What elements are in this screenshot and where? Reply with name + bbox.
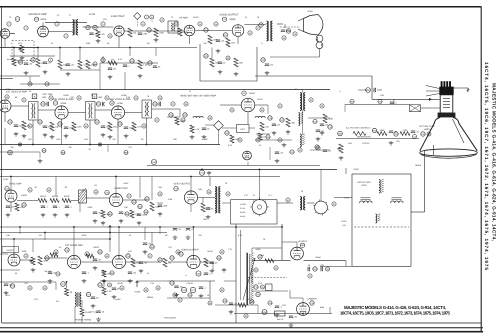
svg-text:12AU7: 12AU7: [249, 92, 256, 95]
svg-text:2-YEL: 2-YEL: [240, 207, 245, 210]
capacitor C17: [218, 62, 226, 65]
svg-text:4-BLK: 4-BLK: [240, 215, 246, 218]
transformer T9 horiz blocking: [300, 197, 305, 211]
svg-text:1M: 1M: [147, 42, 150, 45]
wire to yoke box: [345, 168, 347, 174]
resistor R94: [350, 99, 355, 103]
wire feed to audio row: [109, 239, 111, 252]
wire: [0, 253, 8, 255]
wire speaker field coil: [319, 49, 321, 57]
capacitor C45: [199, 170, 204, 175]
wire: [269, 147, 271, 160]
wire det to V9: [220, 104, 241, 106]
capacitor C13: [148, 61, 153, 65]
resistor R61 brightness: [353, 132, 366, 136]
capacitor C74: [86, 292, 91, 296]
wire: [329, 307, 331, 314]
wire: [39, 152, 41, 158]
part 33: [108, 283, 112, 287]
capacitor C59: [210, 262, 218, 265]
test point TP1: [134, 12, 141, 19]
wire: [205, 124, 214, 126]
wire: [247, 112, 249, 124]
part 61: [274, 266, 278, 270]
capacitor C32: [118, 122, 123, 126]
wire: [71, 200, 79, 202]
ground: [24, 71, 29, 75]
svg-text:4.5MC TRAP: 4.5MC TRAP: [111, 15, 125, 18]
svg-text:6CB6: 6CB6: [61, 102, 67, 105]
capacitor C35: [14, 125, 25, 128]
tube designator V2: [34, 17, 38, 21]
svg-text:6SN7: 6SN7: [123, 182, 129, 185]
svg-text:6CB6: 6CB6: [117, 102, 123, 105]
resistor R73: [98, 283, 103, 287]
resistor R51: [50, 253, 58, 257]
ground: [38, 159, 43, 163]
wire flyback return: [235, 224, 237, 323]
arrow flyback core: [243, 258, 255, 300]
ground: [173, 236, 178, 240]
part 8: [150, 15, 154, 19]
capacitor C30: [64, 127, 75, 130]
transformer T5 2nd IF can: [86, 102, 96, 121]
resistor R31: [175, 117, 185, 125]
svg-text:3-RED: 3-RED: [240, 211, 246, 214]
wire: [103, 281, 105, 287]
resistor R77: [190, 287, 195, 292]
svg-text:6AU6: 6AU6: [41, 18, 47, 21]
wire: [129, 48, 131, 57]
wire schematic bottom frame: [2, 322, 481, 324]
resistor R15: [108, 58, 117, 65]
inductor L4: [300, 134, 305, 147]
tube V16B noise inv: [112, 255, 125, 268]
tube designator V19: [310, 301, 315, 305]
svg-text:BRIGHTNESS: BRIGHTNESS: [357, 136, 371, 139]
wire CRT cathode drive: [345, 103, 410, 105]
part 50: [226, 192, 230, 196]
capacitor C95: [378, 99, 383, 103]
part 10: [108, 34, 112, 38]
ground: [210, 269, 215, 273]
wire: [123, 199, 147, 201]
wire: [251, 268, 253, 283]
part 65: [144, 288, 148, 292]
ground: [22, 134, 27, 138]
wire bus AGC line: [0, 89, 330, 91]
ground: [4, 291, 9, 295]
wire: [124, 72, 126, 90]
part 23: [77, 96, 81, 100]
resistor R22: [210, 58, 220, 67]
CRT gun interior line: [453, 119, 465, 143]
wire: [60, 69, 100, 71]
svg-text:8.2K: 8.2K: [228, 144, 233, 147]
part 52: [332, 202, 336, 206]
wire: [55, 177, 57, 197]
resistor R67: [258, 255, 263, 259]
capacitor C21: [265, 64, 274, 67]
svg-text:40-40: 40-40: [117, 282, 123, 285]
svg-text:47K: 47K: [101, 33, 105, 36]
capacitor C24: [96, 102, 101, 106]
resistor R25: [50, 122, 60, 131]
wire HV lead: [304, 260, 347, 262]
part 29: [261, 285, 265, 289]
capacitor C84: [119, 212, 127, 215]
capacitor C25: [103, 102, 105, 106]
svg-text:H.T.B: H.T.B: [344, 197, 349, 200]
wire: [218, 129, 220, 145]
wire: [377, 89, 382, 91]
socket P1 yoke plug: [250, 198, 269, 217]
tube V14 FM sound det: [8, 254, 20, 266]
tube designator V5: [222, 17, 226, 21]
wire: [0, 281, 28, 283]
wire: [222, 127, 237, 129]
tube V6 1st video IF: [0, 100, 11, 112]
wire lower bus row A: [0, 47, 197, 49]
ground: [53, 213, 58, 217]
svg-text:FOCAL: FOCAL: [187, 282, 195, 285]
wire: [139, 177, 141, 199]
wire: [13, 239, 15, 254]
part 13: [174, 22, 178, 26]
dashed divider in yoke box: [354, 226, 409, 228]
part 14: [198, 22, 202, 26]
wire: [100, 62, 158, 64]
svg-text:12AU7: 12AU7: [257, 98, 264, 101]
capacitor C1: [15, 17, 20, 22]
wire: [209, 177, 211, 187]
svg-text:220K: 220K: [86, 42, 91, 45]
capacitor C42: [328, 125, 333, 129]
wire to yoke plug: [259, 170, 261, 200]
part 56: [105, 254, 109, 258]
resistor R87: [130, 210, 141, 218]
ground: [124, 134, 129, 138]
tube V5 6AQ5 audio output: [232, 25, 244, 37]
resistor R14: [178, 28, 189, 36]
resistor R16: [208, 35, 219, 44]
capacitor C11: [101, 58, 106, 62]
ground: [139, 269, 144, 273]
wire bus 2 row C: [0, 176, 280, 178]
inductor L2 peaking coil: [255, 116, 265, 118]
wire: [270, 56, 320, 58]
ground: [93, 219, 98, 223]
wire T6 out: [152, 108, 181, 110]
svg-text:VERT OUTPUT: VERT OUTPUT: [174, 183, 191, 186]
ground: [275, 313, 280, 317]
part 25: [134, 96, 138, 100]
resistor R18: [226, 38, 236, 47]
wire: [137, 280, 167, 282]
svg-text:1ST VIDEO IF AMP: 1ST VIDEO IF AMP: [6, 91, 27, 94]
svg-text:1 MEG: 1 MEG: [21, 194, 28, 197]
wire: [224, 280, 236, 282]
ground: [6, 213, 11, 217]
transformer T8 vert output: [215, 187, 220, 214]
tube designator V17: [179, 252, 184, 256]
ground: [41, 213, 46, 217]
part 39: [238, 138, 242, 142]
resistor R50: [38, 256, 49, 265]
part 20: [5, 95, 9, 99]
wire vert out to T8: [198, 197, 215, 199]
wire CRT to yoke: [424, 150, 426, 212]
part 54: [54, 250, 58, 254]
wire: [79, 203, 81, 212]
svg-text:6CB6: 6CB6: [63, 94, 69, 97]
terminal B: [92, 94, 97, 99]
part 62: [28, 286, 32, 290]
capacitor C92: [56, 272, 61, 276]
tube designator V8: [110, 101, 114, 105]
part 40: [256, 138, 260, 142]
inductor L7 horiz coil right: [391, 201, 404, 203]
resistor R201A: [38, 199, 47, 203]
resistor R43: [138, 204, 143, 208]
wire: [117, 126, 119, 145]
part 34: [28, 124, 32, 128]
ground: [275, 159, 280, 163]
resistor R95: [258, 133, 266, 140]
capacitor C63: [170, 256, 175, 260]
ground: [137, 221, 142, 225]
wire: [61, 126, 63, 145]
resistor R30: [22, 121, 30, 130]
svg-text:6AQ5: 6AQ5: [230, 18, 237, 21]
wire: [32, 239, 34, 252]
resistor R96: [266, 135, 271, 139]
svg-text:1.2K: 1.2K: [150, 282, 155, 285]
tube designator V12: [105, 190, 110, 194]
dashed lead speaker: [280, 26, 300, 28]
wire bus D1: [0, 226, 282, 228]
svg-text:470K: 470K: [403, 129, 408, 132]
part 67: [178, 298, 182, 302]
dashed lead TP1: [136, 19, 138, 27]
tube V13 vert output: [184, 191, 197, 204]
resistor R76: [181, 287, 186, 292]
svg-text:A: A: [34, 95, 36, 98]
transformer T6 3rd IF can: [142, 100, 152, 118]
capacitor C86: [223, 299, 228, 303]
resistor R13: [78, 60, 88, 69]
wire: [393, 99, 395, 104]
resistor R52: [86, 254, 94, 258]
ground: [289, 324, 294, 328]
wire grid drive to CRT: [372, 98, 440, 100]
svg-text:AUDIO OUTPUT: AUDIO OUTPUT: [181, 249, 199, 252]
part 57: [148, 254, 152, 258]
part 70: [308, 274, 312, 278]
part 64: [120, 286, 124, 290]
ground: [96, 39, 101, 43]
wire T1 to V3: [83, 26, 114, 28]
ground: [222, 268, 227, 272]
wire vertical to CRT grid: [371, 76, 373, 99]
capacitor C23: [47, 102, 49, 106]
svg-text:C101: C101: [290, 151, 296, 154]
ground: [108, 75, 113, 79]
wire: [289, 290, 291, 298]
resistor R59: [217, 256, 222, 260]
capacitor C51: [93, 212, 102, 215]
wire right border rule: [480, 7, 482, 332]
capacitor C14: [153, 66, 161, 69]
capacitor C102: [323, 150, 332, 153]
wire: [118, 227, 120, 255]
capacitor C3: [18, 60, 22, 64]
resistor R5: [36, 58, 44, 67]
tube designator V11: [5, 186, 10, 190]
wire T4 to V7: [38, 109, 55, 111]
wire bus D2: [0, 232, 167, 234]
svg-text:1ST AUDIO AMP: 1ST AUDIO AMP: [65, 244, 83, 247]
resistor R20: [138, 60, 148, 69]
ground: [272, 131, 277, 135]
resistor R91: [173, 293, 178, 297]
svg-text:100K: 100K: [380, 129, 385, 132]
svg-text:WW 10: WW 10: [277, 318, 283, 321]
wire V4 to V5 grid: [195, 30, 232, 32]
wire: [99, 63, 101, 90]
capacitor C20: [261, 58, 266, 62]
junction ring 2: [98, 143, 101, 147]
capacitor C22: [41, 102, 46, 106]
capacitor C57: [139, 262, 148, 265]
capacitor C5: [86, 25, 90, 29]
part 53: [24, 254, 28, 258]
svg-text:4.7K: 4.7K: [118, 58, 123, 61]
wire T5 to V8: [95, 109, 111, 111]
resistor R82: [61, 151, 66, 155]
capacitor C88: [268, 301, 273, 305]
svg-text:AF AMP: AF AMP: [179, 17, 188, 20]
capacitor C93: [82, 272, 90, 275]
capacitor C100: [275, 152, 284, 155]
wire: [20, 259, 33, 261]
dashed volume control box: [12, 41, 34, 61]
wire: [151, 177, 153, 201]
ground: [50, 135, 55, 139]
svg-text:300MA: 300MA: [147, 296, 154, 299]
ground: [20, 56, 25, 60]
wire: [345, 261, 347, 267]
part 58: [176, 250, 180, 254]
wire: [252, 247, 282, 249]
resistor R63: [377, 129, 387, 136]
wire: [310, 149, 330, 151]
part 59: [220, 250, 224, 254]
tube V3 sound det: [114, 26, 124, 36]
ground: [143, 250, 148, 254]
wire: [146, 118, 148, 145]
resistor R35: [230, 135, 240, 143]
transformer T3 audio output: [267, 21, 273, 41]
wire left border: [1, 7, 3, 323]
svg-text:1 MEG: 1 MEG: [93, 246, 100, 249]
svg-text:A-740: A-740: [89, 13, 96, 16]
terminal A: [32, 94, 37, 99]
capacitor C38: [268, 116, 273, 120]
wire: [157, 202, 163, 204]
capacitor C104: [186, 228, 195, 231]
svg-text:YOKE: YOKE: [361, 184, 367, 187]
part 36: [142, 124, 146, 128]
resistor R83: [124, 151, 129, 155]
wire: [59, 48, 61, 61]
part 2: [7, 22, 11, 26]
wire: [190, 177, 192, 191]
resistor R23: [234, 58, 244, 67]
ground: [96, 318, 101, 322]
part 49: [207, 190, 211, 194]
wire: [189, 36, 191, 44]
part 63: [43, 286, 47, 290]
socket P2: [313, 200, 329, 216]
ground: [216, 49, 221, 53]
capacitor C54: [45, 256, 50, 260]
part 46: [94, 190, 98, 194]
capacitor C56: [126, 254, 131, 258]
capacitor C31: [101, 126, 112, 129]
wire: [255, 139, 292, 141]
svg-text:6CB6: 6CB6: [121, 94, 127, 97]
capacitor C101: [290, 150, 296, 154]
wire: [179, 109, 181, 117]
resistor R57: [163, 258, 171, 267]
capacitor C9: [66, 64, 75, 67]
part 22: [49, 96, 53, 100]
part 33: [320, 104, 324, 108]
resistor R47: [150, 202, 161, 211]
wire V7 to T5: [68, 112, 85, 114]
wire: [81, 261, 113, 263]
wire: [0, 151, 40, 153]
capacitor C33: [124, 127, 135, 130]
capacitor C61: [394, 132, 399, 136]
capacitor C75: [91, 297, 99, 300]
ion trap box: [410, 105, 421, 112]
wire: [4, 112, 6, 122]
capacitor C49: [65, 206, 73, 209]
capacitor C98: [320, 124, 329, 127]
transformer T11 power: [75, 293, 81, 307]
wire: [159, 227, 161, 234]
resistor R41: [15, 203, 23, 211]
wire: [211, 48, 213, 59]
resistor R7: [96, 30, 106, 38]
part 60: [254, 268, 258, 272]
svg-text:18K: 18K: [291, 121, 295, 124]
wire: [74, 307, 76, 324]
part 12: [160, 18, 164, 22]
tube V19 damper: [297, 303, 310, 316]
resistor R3: [12, 58, 22, 66]
svg-text:3.3K: 3.3K: [126, 96, 131, 99]
video detector box: [237, 125, 250, 133]
ground: [138, 74, 143, 78]
resistor R62: [372, 128, 377, 132]
part 38: [208, 116, 212, 120]
resistor R39: [323, 114, 334, 123]
capacitor C65: [308, 264, 312, 271]
part 47: [127, 194, 131, 198]
